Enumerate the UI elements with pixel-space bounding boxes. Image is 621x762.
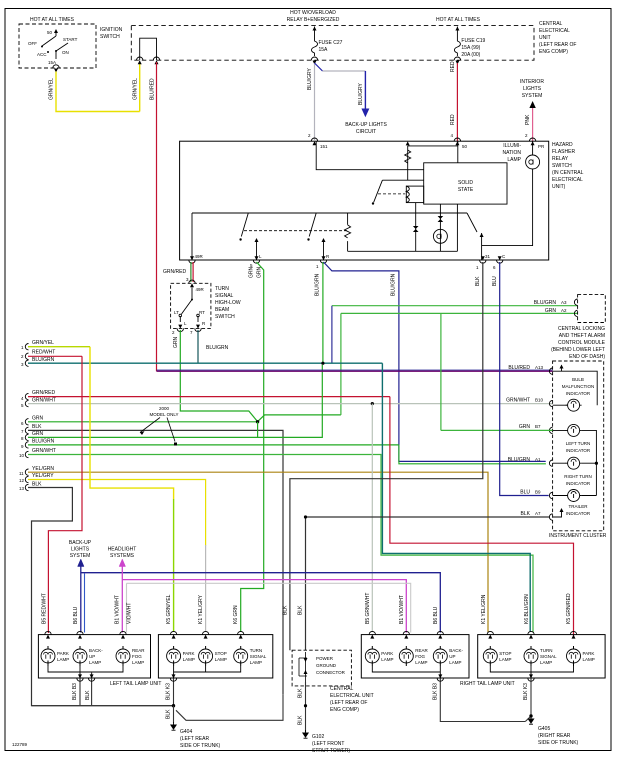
- svg-text:ENG COMP): ENG COMP): [539, 49, 568, 55]
- wire GRN/RED stub: [190, 262, 192, 282]
- central electrical unit dashed box: [131, 26, 534, 61]
- svg-text:GRN: GRN: [519, 424, 531, 430]
- svg-text:GRN/RED: GRN/RED: [163, 269, 186, 275]
- terminal GRN/YEL: [137, 57, 143, 60]
- svg-text:GRN/WHT: GRN/WHT: [32, 398, 56, 404]
- svg-text:15A (99): 15A (99): [461, 45, 480, 51]
- svg-text:(LEFT REAR OF: (LEFT REAR OF: [539, 42, 576, 48]
- svg-text:SWITCH: SWITCH: [215, 314, 235, 320]
- svg-text:NATION: NATION: [502, 150, 521, 156]
- svg-text:LAMP: LAMP: [415, 660, 427, 665]
- svg-text:HOT AT ALL TIMES: HOT AT ALL TIMES: [30, 17, 75, 23]
- svg-text:CENTRAL: CENTRAL: [330, 686, 354, 692]
- ground G405: [528, 716, 533, 724]
- BLK from cluster A7 down to connector: [305, 517, 307, 651]
- svg-text:HOT AT ALL TIMES: HOT AT ALL TIMES: [436, 17, 481, 23]
- svg-text:BACK-: BACK-: [449, 648, 463, 653]
- svg-text:GRN/RED: GRN/RED: [32, 390, 55, 396]
- svg-text:HAZARD: HAZARD: [552, 142, 573, 148]
- pin A7: [549, 514, 552, 520]
- svg-text:GRN: GRN: [249, 267, 255, 279]
- svg-text:INSTRUMENT CLUSTER: INSTRUMENT CLUSTER: [549, 533, 607, 539]
- svg-text:15A: 15A: [319, 47, 329, 53]
- pin B9: [549, 492, 552, 498]
- stop lamp (left): [199, 646, 213, 666]
- svg-text:GRN: GRN: [32, 431, 44, 437]
- svg-text:PARK: PARK: [57, 651, 69, 656]
- park lamp (left2): [167, 646, 181, 666]
- terminal BLU/RED: [153, 57, 159, 60]
- connector internals: [305, 652, 307, 682]
- svg-text:GRN/YEL: GRN/YEL: [49, 78, 55, 100]
- svg-text:B5 GRN/WHT: B5 GRN/WHT: [365, 593, 371, 624]
- svg-text:BLU/GRN: BLU/GRN: [315, 273, 321, 296]
- svg-text:BLU/GRN: BLU/GRN: [391, 273, 397, 296]
- svg-text:BLK K3: BLK K3: [166, 683, 172, 700]
- svg-text:BLU/RED: BLU/RED: [508, 365, 530, 371]
- svg-text:PARK: PARK: [583, 651, 595, 656]
- svg-text:B5 RED/WHT: B5 RED/WHT: [42, 593, 48, 624]
- svg-text:UP: UP: [89, 654, 95, 659]
- svg-text:BACK-UP LIGHTS: BACK-UP LIGHTS: [345, 122, 387, 128]
- svg-text:LT: LT: [174, 310, 179, 315]
- svg-text:SYSTEM: SYSTEM: [522, 93, 543, 99]
- svg-text:LAMP: LAMP: [381, 657, 393, 662]
- svg-text:RED: RED: [450, 114, 456, 125]
- svg-text:11: 11: [19, 471, 24, 476]
- pin B10: [549, 400, 552, 406]
- internal switch mid: [374, 180, 424, 202]
- svg-text:STRUT TOWER): STRUT TOWER): [312, 748, 350, 754]
- svg-text:50: 50: [47, 30, 53, 35]
- svg-text:2000: 2000: [159, 406, 170, 411]
- svg-text:BLK: BLK: [298, 715, 304, 725]
- turn signal switch dashed box: [171, 283, 211, 328]
- illumination lamp: [526, 155, 540, 169]
- svg-text:TURN: TURN: [250, 648, 263, 653]
- svg-text:SWITCH: SWITCH: [100, 34, 120, 40]
- svg-text:G102: G102: [312, 734, 324, 740]
- svg-text:VIO/WHT: VIO/WHT: [127, 603, 133, 624]
- svg-text:LAMP: LAMP: [132, 660, 144, 665]
- svg-text:LAMP: LAMP: [507, 157, 521, 163]
- svg-text:BLU/GRY: BLU/GRY: [358, 82, 364, 105]
- ground G404: [171, 722, 176, 730]
- svg-text:LAMP: LAMP: [540, 660, 552, 665]
- ignition output terminal: [53, 65, 59, 68]
- svg-text:INDICATOR: INDICATOR: [566, 511, 591, 516]
- svg-text:FUSE C27: FUSE C27: [319, 40, 343, 46]
- svg-text:BLU/GRN: BLU/GRN: [206, 345, 229, 351]
- svg-text:ILLUMI-: ILLUMI-: [503, 143, 521, 149]
- svg-text:G405: G405: [538, 726, 550, 732]
- svg-text:LAMP: LAMP: [183, 657, 195, 662]
- svg-text:RED: RED: [450, 61, 456, 72]
- svg-text:GRN: GRN: [32, 416, 44, 422]
- svg-text:CONNECTOR: CONNECTOR: [316, 670, 346, 675]
- RED/WHT path (pin2): [48, 356, 82, 633]
- svg-text:151: 151: [320, 144, 328, 149]
- svg-text:GRN: GRN: [173, 337, 179, 349]
- svg-text:G404: G404: [180, 729, 192, 735]
- svg-text:RELAY: RELAY: [552, 156, 569, 162]
- switch internals: [189, 280, 195, 283]
- internal common bus right box1: [372, 666, 440, 679]
- svg-text:LAMP: LAMP: [499, 657, 511, 662]
- svg-text:INTERIOR: INTERIOR: [520, 79, 544, 85]
- GRN/RED path (pin4): [390, 397, 574, 636]
- svg-text:(RIGHT REAR: (RIGHT REAR: [538, 733, 571, 739]
- svg-text:END OF DASH): END OF DASH): [569, 354, 605, 360]
- diode branch 1: [415, 203, 417, 252]
- fuse C19: [454, 38, 460, 56]
- svg-text:B9: B9: [535, 490, 541, 495]
- svg-text:49R: 49R: [195, 254, 204, 259]
- svg-text:A3: A3: [561, 300, 567, 305]
- svg-text:BLU/GRN: BLU/GRN: [508, 457, 531, 463]
- right drop from solid state: [456, 204, 458, 251]
- svg-text:BLK: BLK: [521, 511, 531, 517]
- right unit box 1: [361, 635, 469, 678]
- svg-text:TURN: TURN: [540, 648, 553, 653]
- A7 ground link: [553, 509, 562, 517]
- svg-text:(LEFT REAR OF: (LEFT REAR OF: [330, 700, 367, 706]
- svg-text:RELAY B+ENERGIZED: RELAY B+ENERGIZED: [287, 17, 340, 23]
- svg-text:10: 10: [19, 453, 25, 458]
- svg-text:HOT W/OVERLOAD: HOT W/OVERLOAD: [290, 10, 336, 16]
- svg-text:49R: 49R: [196, 287, 205, 292]
- svg-text:START: START: [63, 37, 78, 42]
- BLK riser to G102: [305, 682, 307, 732]
- 151 internal line: [316, 141, 424, 170]
- svg-text:GRN/YEL: GRN/YEL: [133, 78, 139, 100]
- svg-text:FOG: FOG: [132, 654, 142, 659]
- svg-text:LEFT TURN: LEFT TURN: [566, 441, 591, 446]
- wire BLU/RED down: [156, 62, 158, 371]
- svg-text:BLK: BLK: [298, 605, 304, 615]
- svg-text:K1 YEL/GRN: K1 YEL/GRN: [481, 594, 487, 624]
- BLU/GRN teal path (pin3): [382, 363, 530, 632]
- wire branch to back-up lights: [323, 70, 366, 72]
- BLK K3 drop below box2: [173, 679, 175, 706]
- left turn indicator: [566, 424, 582, 436]
- svg-text:(LEFT REAR: (LEFT REAR: [180, 736, 209, 742]
- svg-text:B1 VIO/WHT: B1 VIO/WHT: [115, 595, 121, 624]
- svg-text:LAMP: LAMP: [449, 660, 461, 665]
- park lamp (right1): [365, 646, 379, 666]
- svg-text:BULB: BULB: [572, 377, 584, 382]
- svg-text:BACK-: BACK-: [89, 648, 103, 653]
- svg-text:(IN CENTRAL: (IN CENTRAL: [552, 170, 584, 176]
- back-up lamp: [73, 646, 87, 666]
- svg-text:50: 50: [462, 144, 468, 149]
- svg-text:STOP: STOP: [499, 651, 511, 656]
- park lamp (left1): [41, 646, 55, 666]
- svg-text:BLK: BLK: [85, 690, 91, 700]
- resistor under 50 jumper: [405, 150, 411, 163]
- svg-text:ON: ON: [62, 50, 69, 55]
- back-up lamp (right): [433, 646, 447, 666]
- svg-text:B6 BLU: B6 BLU: [73, 606, 79, 624]
- SOLID STATE box: [424, 163, 507, 204]
- svg-text:LAMP: LAMP: [250, 660, 262, 665]
- svg-text:31: 31: [485, 254, 491, 259]
- left resistor: [347, 213, 349, 251]
- rear fog lamp: [116, 646, 130, 666]
- svg-text:SIGNAL: SIGNAL: [215, 293, 234, 299]
- svg-text:BLU/GRN: BLU/GRN: [32, 357, 55, 363]
- park lamp (right2): [567, 646, 581, 666]
- right branch into G404 from pin7 blk: [176, 694, 283, 720]
- pin7 BLK joins connector riser: [304, 515, 307, 518]
- svg-text:TURN: TURN: [215, 286, 229, 292]
- svg-text:CENTRAL: CENTRAL: [539, 21, 563, 27]
- VIO/WHT white companion: [126, 583, 128, 632]
- trailer indicator: [566, 490, 582, 502]
- svg-text:BLK: BLK: [283, 605, 289, 615]
- svg-text:K5 GRN/YEL: K5 GRN/YEL: [166, 594, 172, 624]
- svg-text:SIDE OF TRUNK): SIDE OF TRUNK): [538, 740, 579, 746]
- svg-text:SYSTEMS: SYSTEMS: [110, 553, 135, 559]
- svg-text:REAR: REAR: [415, 648, 428, 653]
- BLK drops below right unit: [440, 679, 525, 722]
- svg-text:FOG: FOG: [415, 654, 425, 659]
- svg-text:GROUND: GROUND: [316, 663, 337, 668]
- svg-text:BLU/RED: BLU/RED: [149, 78, 155, 100]
- bulb malfunction indicator: [553, 371, 598, 405]
- svg-text:A7: A7: [535, 511, 541, 516]
- wire BLU/GRY main drop: [314, 63, 316, 140]
- svg-text:BLK B3: BLK B3: [433, 683, 439, 700]
- svg-text:INDICATOR: INDICATOR: [566, 481, 591, 486]
- svg-text:YEL/GRN: YEL/GRN: [32, 466, 54, 472]
- svg-text:12: 12: [19, 478, 25, 483]
- svg-text:GRN/YEL: GRN/YEL: [32, 340, 54, 346]
- svg-text:TRAILER: TRAILER: [568, 504, 588, 509]
- svg-text:K1 YEL/GRY: K1 YEL/GRY: [198, 594, 204, 624]
- svg-text:CIRCUIT: CIRCUIT: [356, 129, 376, 135]
- svg-text:CONTROL MODULE: CONTROL MODULE: [558, 340, 606, 346]
- internal common bus box1: [48, 666, 123, 679]
- BLK A7 line: [306, 516, 550, 518]
- right unit box 2: [478, 635, 605, 678]
- wire GRN to central locking: [341, 312, 578, 314]
- svg-text:REAR: REAR: [132, 648, 145, 653]
- svg-text:YEL/GRY: YEL/GRY: [32, 473, 54, 479]
- switch to 31: [467, 213, 477, 232]
- GRN/WHT pin5 drop to right park lamp: [371, 404, 373, 632]
- svg-text:OFF: OFF: [28, 41, 37, 46]
- green companion of navy pair to cluster A1: [399, 445, 546, 464]
- BLK from relay 31: [290, 262, 483, 650]
- svg-text:13: 13: [19, 486, 25, 491]
- svg-text:SYSTEM: SYSTEM: [70, 553, 91, 559]
- ignition switch box: [19, 24, 96, 68]
- svg-text:B1 VIO/WHT: B1 VIO/WHT: [399, 595, 405, 624]
- svg-text:BLK K3: BLK K3: [523, 683, 529, 700]
- svg-text:UNIT): UNIT): [552, 184, 566, 190]
- svg-text:BLK: BLK: [32, 424, 42, 430]
- svg-text:ACC: ACC: [37, 52, 47, 57]
- main bus with switches: [192, 212, 467, 214]
- dashed gang link: [244, 230, 348, 232]
- svg-text:ELECTRICAL UNIT: ELECTRICAL UNIT: [330, 693, 374, 699]
- svg-text:A1: A1: [535, 457, 541, 462]
- svg-text:B6 BLU: B6 BLU: [433, 606, 439, 624]
- svg-text:122789: 122789: [12, 742, 28, 747]
- svg-text:PARK: PARK: [183, 651, 195, 656]
- fuse C27: [312, 38, 318, 56]
- svg-text:ELECTRICAL: ELECTRICAL: [552, 177, 583, 183]
- dashed link to coil: [378, 193, 405, 195]
- terminals box1: [45, 631, 51, 634]
- pin A1: [549, 460, 552, 466]
- wire GRN/YEL from ignition: [56, 62, 140, 112]
- svg-text:INDICATOR: INDICATOR: [566, 448, 591, 453]
- svg-text:UNIT: UNIT: [539, 35, 551, 41]
- svg-text:RT: RT: [199, 310, 205, 315]
- wire GRN from junction dot up to A12 riser: [258, 415, 341, 422]
- svg-text:BLK: BLK: [32, 482, 42, 488]
- svg-text:BEAM: BEAM: [215, 307, 229, 313]
- wire PNK: [532, 108, 534, 141]
- svg-text:SIGNAL: SIGNAL: [250, 654, 267, 659]
- central locking module box: [578, 295, 606, 323]
- left unit box 2: [158, 635, 272, 678]
- pin A13: [549, 368, 552, 374]
- svg-text:SWITCH: SWITCH: [552, 163, 572, 169]
- svg-text:BLU/GRN: BLU/GRN: [32, 439, 55, 445]
- ground G102: [303, 730, 308, 738]
- svg-text:BLK: BLK: [298, 688, 304, 698]
- BLU/RED purple run to cluster: [157, 370, 553, 372]
- GRN line to B7: [441, 429, 553, 431]
- svg-text:RIGHT TURN: RIGHT TURN: [564, 474, 592, 479]
- svg-text:INDICATOR: INDICATOR: [566, 391, 591, 396]
- svg-text:UP: UP: [449, 654, 455, 659]
- svg-text:RED/WHT: RED/WHT: [32, 350, 55, 356]
- 50 internal line: [408, 141, 458, 180]
- turn signal lamp (right): [524, 646, 538, 666]
- svg-text:LAMP: LAMP: [215, 657, 227, 662]
- svg-text:GRN/WHT: GRN/WHT: [32, 448, 56, 454]
- svg-text:FUSE C19: FUSE C19: [461, 38, 485, 44]
- svg-text:(LEFT FRONT: (LEFT FRONT: [312, 741, 344, 747]
- svg-text:FLASHER: FLASHER: [552, 149, 575, 155]
- svg-text:STATE: STATE: [458, 187, 474, 193]
- svg-text:CENTRAL LOCKING: CENTRAL LOCKING: [558, 326, 605, 332]
- BLK drops below box1: [80, 672, 92, 705]
- pin B7: [549, 427, 552, 433]
- wire BLU/GRN from relay R (navy run): [324, 262, 546, 461]
- svg-text:BLK B3: BLK B3: [72, 683, 78, 700]
- svg-text:SIGNAL: SIGNAL: [540, 654, 557, 659]
- svg-text:PR: PR: [538, 144, 545, 149]
- GRN/YEL path (pin1): [90, 347, 174, 499]
- ignition switch internals: [42, 30, 68, 59]
- BLU line from relay C to cluster B9: [500, 262, 549, 496]
- right turn indicator: [566, 457, 582, 469]
- ground bus to G404: [32, 705, 174, 707]
- svg-text:RIGHT TAIL LAMP UNIT: RIGHT TAIL LAMP UNIT: [460, 681, 515, 687]
- svg-text:ELECTRICAL: ELECTRICAL: [539, 28, 570, 34]
- wire BLU/GRN from relay R (green drop): [322, 262, 324, 363]
- svg-text:B7: B7: [535, 424, 541, 429]
- svg-text:LIGHTS: LIGHTS: [71, 547, 90, 553]
- svg-text:BLK: BLK: [166, 709, 172, 719]
- switch L: [241, 213, 248, 237]
- svg-text:LIGHTS: LIGHTS: [523, 86, 542, 92]
- svg-text:POWER: POWER: [316, 656, 334, 661]
- wire GRN from switch L: [180, 330, 257, 422]
- svg-text:LAMP: LAMP: [57, 657, 69, 662]
- svg-text:BLU: BLU: [520, 490, 530, 496]
- svg-text:HEADLIGHT: HEADLIGHT: [108, 547, 137, 553]
- wire GRN from relay L: [241, 262, 264, 632]
- wire BLU/GRN from switch R: [197, 330, 199, 363]
- coil box: [406, 186, 423, 203]
- svg-text:PARK: PARK: [381, 651, 393, 656]
- VIO/WHT magenta line: [121, 565, 123, 633]
- internal common bus right box2: [490, 666, 573, 679]
- svg-text:GRN: GRN: [545, 308, 557, 314]
- svg-text:K6 BLU/GRN: K6 BLU/GRN: [524, 594, 530, 624]
- svg-text:LAMP: LAMP: [89, 660, 101, 665]
- svg-text:IGNITION: IGNITION: [100, 27, 123, 33]
- svg-text:A13: A13: [535, 365, 544, 370]
- svg-text:HIGH-LOW: HIGH-LOW: [215, 300, 241, 306]
- svg-text:GRN: GRN: [257, 267, 263, 279]
- svg-text:MALFUNCTION: MALFUNCTION: [562, 384, 595, 389]
- left unit box 1: [38, 635, 150, 678]
- bottom internal bus: [348, 250, 458, 252]
- svg-text:15A: 15A: [48, 60, 56, 65]
- svg-text:AND THEFT ALARM: AND THEFT ALARM: [559, 333, 605, 339]
- BLU navy backup line: [80, 565, 82, 633]
- svg-text:K6 GRN: K6 GRN: [233, 605, 239, 624]
- svg-text:SOLID: SOLID: [458, 180, 473, 186]
- lamp branch: [439, 204, 441, 251]
- arrow up interior lights: [529, 101, 535, 108]
- svg-text:LAMP: LAMP: [583, 657, 595, 662]
- left pin connector arcs: [25, 344, 28, 350]
- rear fog lamp (right): [399, 646, 413, 666]
- svg-text:STOP: STOP: [215, 651, 227, 656]
- svg-text:A2: A2: [561, 308, 567, 313]
- internal loop wire: [140, 38, 157, 60]
- switch R: [309, 213, 316, 237]
- svg-text:PNK: PNK: [525, 114, 531, 125]
- svg-text:BLK: BLK: [475, 276, 481, 286]
- svg-text:LEFT TAIL LAMP UNIT: LEFT TAIL LAMP UNIT: [110, 681, 161, 687]
- wire BLU/GRN to central locking: [332, 305, 578, 307]
- turn signal lamp (left): [234, 646, 248, 666]
- internal common bus box2: [174, 666, 241, 679]
- svg-text:BACK-UP: BACK-UP: [69, 540, 92, 546]
- svg-text:BLU/GRY: BLU/GRY: [307, 67, 313, 90]
- stop lamp (right): [483, 646, 497, 666]
- svg-text:MODEL ONLY: MODEL ONLY: [149, 412, 178, 417]
- wire RED from fuse C19: [456, 63, 458, 141]
- svg-text:BLU: BLU: [492, 276, 498, 286]
- svg-text:20A (00): 20A (00): [461, 52, 480, 58]
- svg-text:SIDE OF TRUNK): SIDE OF TRUNK): [180, 743, 221, 749]
- svg-text:K5 GRN/RED: K5 GRN/RED: [566, 593, 572, 624]
- svg-text:B10: B10: [535, 398, 544, 403]
- svg-text:BLU/GRN: BLU/GRN: [534, 300, 557, 306]
- svg-text:(BEHIND LOWER LEFT: (BEHIND LOWER LEFT: [551, 347, 605, 353]
- svg-text:GRN/WHT: GRN/WHT: [506, 398, 530, 404]
